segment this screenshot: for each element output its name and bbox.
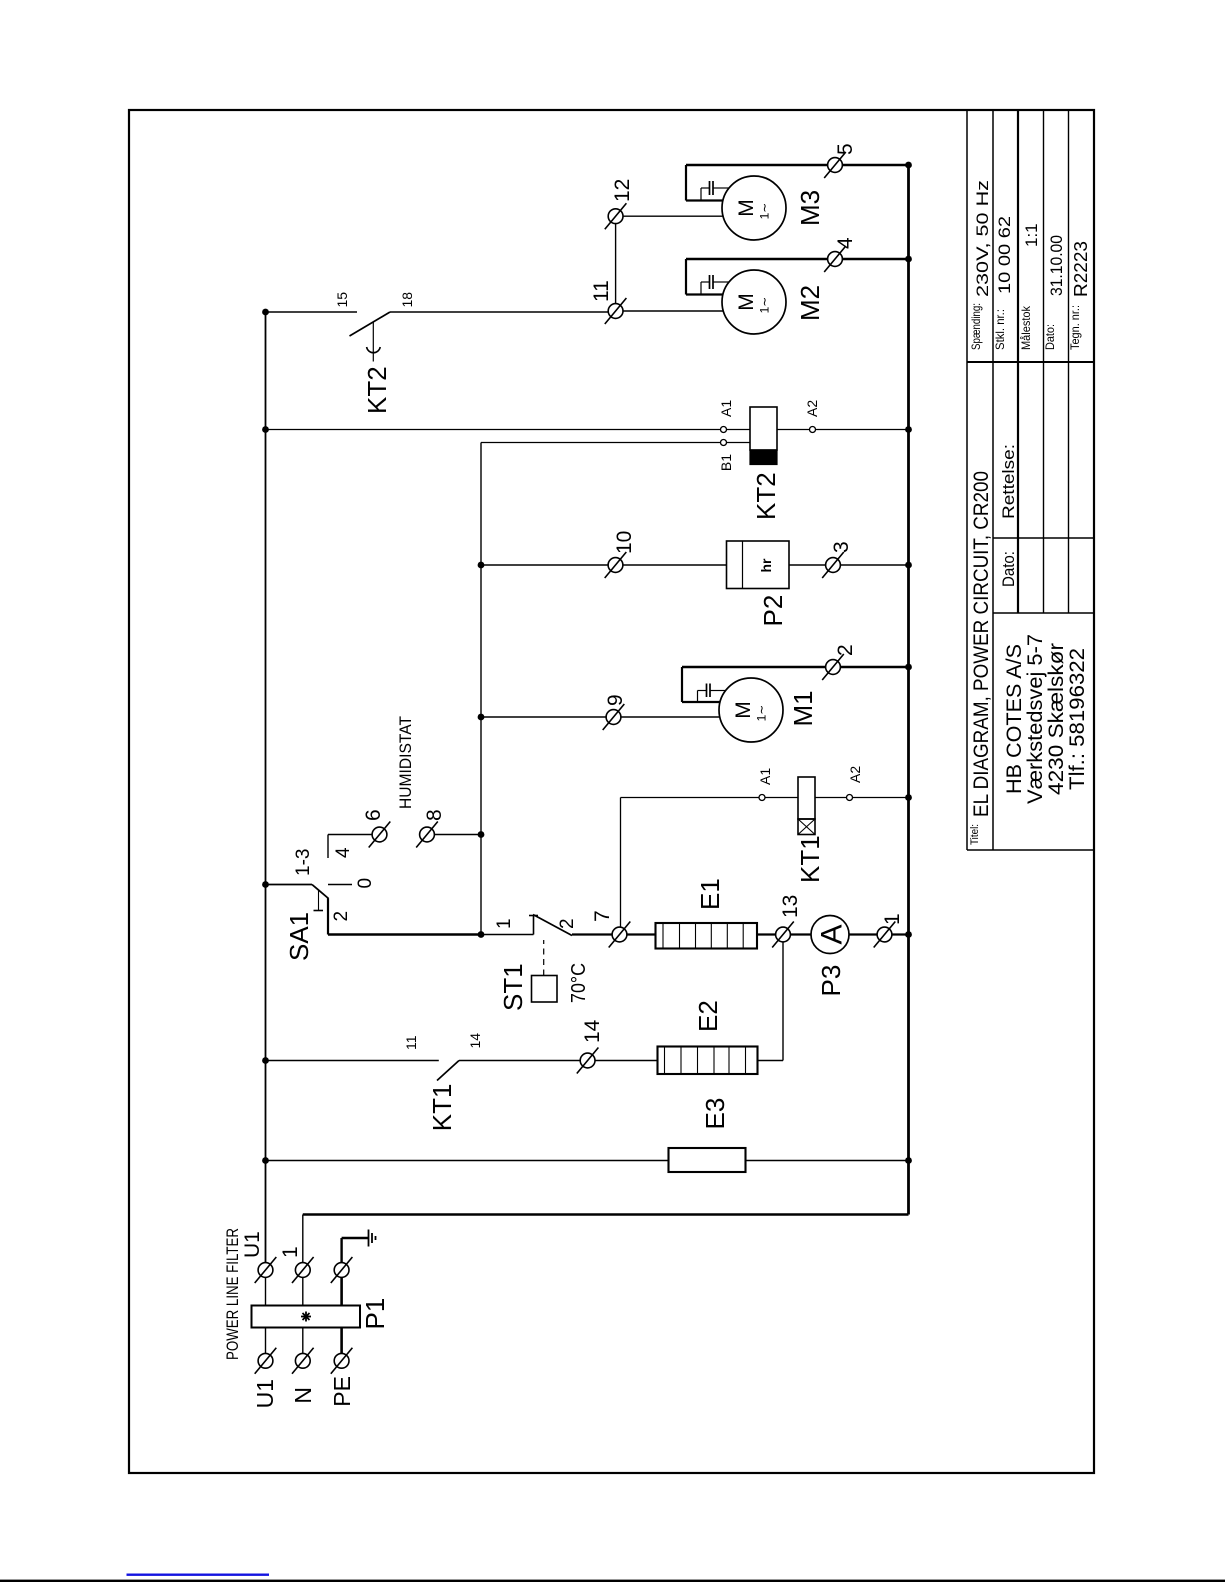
svg-text:A: A	[816, 924, 849, 944]
svg-text:Målestok: Målestok	[1019, 305, 1033, 350]
title block vertical divider between Dato and Rettelse columns	[993, 537, 1094, 539]
motor M2 circle	[722, 270, 786, 334]
capacitor riser of M3	[700, 188, 702, 201]
terminal 9	[606, 710, 621, 725]
hyperlink underline artifact bottom left	[127, 1574, 270, 1576]
svg-text:Rettelse:: Rettelse:	[999, 444, 1018, 519]
svg-text:E1: E1	[695, 878, 725, 910]
svg-text:70°C: 70°C	[568, 963, 590, 1003]
svg-text:KT2: KT2	[751, 472, 781, 520]
terminal 2	[826, 660, 841, 675]
capacitor M1 to motor stub	[710, 690, 726, 692]
svg-text:P1: P1	[360, 1298, 390, 1330]
svg-text:0: 0	[355, 878, 376, 889]
terminal 4	[828, 252, 843, 267]
wire P1 to U1 output terminal	[265, 1277, 267, 1305]
wire top supply bus	[265, 312, 267, 1262]
node P2 on bottom bus	[905, 562, 912, 569]
wire terminal 8 down to tap line	[434, 834, 481, 836]
capacitor plates of M2	[709, 275, 711, 289]
wire terminal 12 down to motor M3	[623, 215, 723, 217]
selector SA1 mechanical linkage	[318, 890, 320, 911]
terminal 10	[608, 558, 623, 573]
svg-text:A1: A1	[757, 768, 773, 785]
title block row line under Titel row	[992, 110, 994, 850]
relay coil KT1 box	[798, 777, 815, 819]
delay actuator line of KT2	[372, 322, 374, 362]
svg-text:1-3: 1-3	[293, 849, 314, 876]
title block main vertical divider	[967, 361, 1094, 363]
footer black bar	[0, 1580, 1225, 1582]
wire terminal 13 to ammeter P3	[790, 933, 811, 935]
wire terminal 9 to motor M1	[621, 716, 720, 718]
wire M2 feed down to terminal 4	[686, 258, 828, 261]
svg-text:6: 6	[362, 809, 385, 821]
svg-text:12: 12	[611, 179, 634, 202]
svg-text:4230 Skælskør: 4230 Skælskør	[1045, 643, 1068, 795]
svg-text:10 00 62: 10 00 62	[995, 216, 1014, 294]
terminal 12	[608, 209, 623, 224]
svg-text:3: 3	[830, 541, 853, 553]
node KT2 A1 on top bus	[262, 426, 269, 433]
svg-text:SA1: SA1	[284, 912, 314, 961]
wire top bus to KT2 A1	[266, 429, 721, 431]
svg-text:KT1: KT1	[795, 835, 825, 883]
svg-text:14: 14	[467, 1033, 483, 1049]
pin A1 of KT2	[721, 427, 727, 433]
delay semicircle of KT2	[367, 347, 381, 353]
svg-text:M: M	[732, 701, 755, 719]
pin A1 of KT1	[759, 795, 765, 801]
capacitor M3 to motor stub	[713, 187, 729, 189]
svg-text:2: 2	[834, 644, 857, 656]
svg-text:R2223: R2223	[1071, 241, 1091, 297]
wire P1 to terminal 1 output	[302, 1277, 304, 1305]
wire terminal 7 to KT1 coil corner	[620, 798, 622, 928]
heater E2	[658, 1047, 758, 1075]
terminal PE input (left)	[334, 1353, 349, 1368]
wire tap to terminal 9	[481, 716, 606, 718]
dashed actuator ST1 to arm	[543, 940, 545, 976]
svg-text:1:1: 1:1	[1022, 223, 1041, 247]
wire E1 to terminal 13	[757, 933, 776, 935]
motor M3 circle	[722, 176, 786, 240]
wire terminal 11 to terminal 12	[615, 224, 617, 304]
wire terminal 11 down to motor M2	[623, 310, 723, 312]
wire tap to terminal 10	[481, 564, 608, 566]
svg-text:M3: M3	[795, 190, 825, 226]
wire terminal 5 to bottom bus	[842, 164, 908, 167]
terminal 1 rung	[877, 927, 892, 942]
svg-text:2: 2	[557, 918, 578, 929]
wire A1 into KT2 coil	[727, 429, 751, 431]
wire SA1 position 2 horizontal	[327, 898, 329, 934]
wire bus to KT2 contact	[266, 311, 358, 313]
svg-text:HB COTES A/S: HB COTES A/S	[1003, 644, 1026, 794]
terminal 13	[776, 927, 791, 942]
wire SA1 input	[266, 884, 313, 886]
remanence square with X of KT1	[798, 819, 815, 835]
wire B1 into KT2 coil	[727, 442, 751, 444]
svg-text:1: 1	[494, 918, 515, 929]
svg-text:31.10.00: 31.10.00	[1047, 235, 1066, 296]
svg-text:EL DIAGRAM, POWER CIRCUIT, CR: EL DIAGRAM, POWER CIRCUIT, CR200	[970, 471, 993, 817]
selector SA1 position 4 stub	[327, 835, 329, 859]
svg-text:M: M	[735, 293, 758, 311]
node E2 rung on top bus	[262, 1057, 269, 1064]
wire junction to ST1 contact	[481, 934, 534, 936]
wire neutral riser from filter to bottom bus	[303, 1213, 909, 1216]
terminal 8	[420, 827, 435, 842]
selector switch SA1 moving arm	[312, 885, 329, 899]
heater E3	[669, 1148, 746, 1172]
terminal 5	[828, 158, 843, 173]
wire N input to P1	[302, 1328, 304, 1354]
terminal U1 output	[258, 1263, 273, 1278]
svg-text:PE: PE	[329, 1376, 355, 1407]
wire corner to terminal 13	[782, 942, 784, 1061]
node M3 on bottom bus	[905, 162, 912, 169]
contact KT1 (NO) moving arm	[437, 1061, 459, 1081]
drawing border frame	[129, 110, 1094, 1473]
svg-text:E2: E2	[693, 1000, 723, 1032]
title block row line under Malestok row	[1043, 110, 1045, 613]
node E3 rung on top bus	[262, 1157, 269, 1164]
pin A2 of KT1	[847, 795, 853, 801]
wire P1 to PE output	[340, 1277, 343, 1305]
wire M1 feed down to terminal 2	[682, 666, 826, 669]
svg-text:230V, 50 Hz: 230V, 50 Hz	[973, 180, 992, 297]
svg-text:Dato:: Dato:	[1043, 324, 1057, 350]
svg-text:Dato:: Dato:	[999, 551, 1018, 587]
terminal PE output	[334, 1263, 349, 1278]
svg-text:13: 13	[779, 895, 802, 918]
svg-text:B1: B1	[718, 454, 734, 471]
wire KT2 coil to A2	[777, 429, 809, 431]
svg-text:4: 4	[834, 237, 857, 249]
wire neutral horizontal from filter terminal 1	[302, 1215, 304, 1263]
contact ST1 thermal fixed T-bar	[533, 916, 535, 935]
selector SA1 position 0 stub	[328, 884, 352, 886]
heater E1	[656, 923, 758, 949]
title block row line under Dato row	[1068, 110, 1070, 613]
terminal 1 output	[295, 1263, 310, 1278]
svg-text:10: 10	[613, 531, 636, 554]
svg-text:ST1: ST1	[498, 963, 528, 1011]
wire M3 feed down to terminal 5	[686, 164, 828, 167]
title block vertical divider at revision table left	[993, 612, 1094, 614]
svg-text:1∼: 1∼	[758, 297, 772, 314]
bracket wire M1 output	[681, 667, 683, 702]
ammeter P3 circle	[811, 916, 849, 954]
bracket wire M3 output	[685, 165, 687, 201]
terminal U1 input (left)	[258, 1353, 273, 1368]
terminal 14	[580, 1053, 595, 1068]
node tap P2 rung	[478, 562, 485, 569]
wire terminal 2 to bottom bus	[840, 666, 908, 669]
wire P3 to terminal 1	[849, 933, 877, 935]
wire corner down to KT1 A1	[621, 797, 760, 799]
wire A2 to bottom bus	[853, 797, 909, 799]
contact KT2 (NO delayed) moving arm	[350, 312, 391, 336]
wire SA1 output down to junction	[328, 933, 481, 936]
svg-text:KT1: KT1	[427, 1084, 457, 1132]
thermostat ST1 box	[532, 976, 558, 1003]
wire PE input to P1	[340, 1328, 343, 1354]
svg-text:5: 5	[834, 143, 857, 155]
wire E2 rung from bus to KT1 contact	[266, 1060, 439, 1062]
node tap at ST1 rung	[478, 931, 485, 938]
relay coil KT2 box	[750, 407, 777, 450]
wire terminal 7 to heater E1	[627, 933, 656, 935]
svg-text:P3: P3	[816, 965, 846, 997]
capacitor C of M1 riser	[697, 691, 699, 703]
terminal N input (left)	[295, 1353, 310, 1368]
capacitor plates of M1	[706, 684, 708, 698]
svg-text:M: M	[735, 199, 758, 217]
svg-text:E3: E3	[700, 1098, 730, 1130]
svg-text:Tegn. nr.:: Tegn. nr.:	[1068, 305, 1082, 350]
hour counter P2 box	[727, 541, 790, 589]
wire KT2 contact to terminal 11	[390, 311, 608, 313]
motor M1 circle	[719, 678, 783, 742]
svg-text:14: 14	[581, 1019, 604, 1043]
svg-text:Tlf.: 58196322: Tlf.: 58196322	[1066, 648, 1089, 790]
svg-text:HUMIDISTAT: HUMIDISTAT	[397, 716, 415, 809]
svg-text:1∼: 1∼	[758, 203, 772, 220]
svg-text:4: 4	[333, 847, 354, 858]
capacitor M2 to motor stub	[713, 281, 729, 283]
wire terminal 3 to bottom bus	[840, 564, 908, 566]
wire E3 rung upper	[266, 1160, 669, 1162]
ground symbol	[368, 1230, 370, 1247]
svg-text:15: 15	[334, 292, 350, 308]
svg-text:11: 11	[403, 1035, 419, 1050]
node tap humidistat	[478, 831, 485, 838]
svg-text:N: N	[290, 1387, 316, 1404]
node tap M1 rung	[478, 714, 485, 721]
wire P2 to terminal 3	[789, 564, 826, 566]
svg-text:7: 7	[591, 910, 614, 922]
node power rung on bottom bus	[905, 931, 912, 938]
wire U1 input to P1	[265, 1328, 267, 1354]
svg-text:M2: M2	[795, 285, 825, 321]
svg-text:KT2: KT2	[362, 366, 392, 414]
node M2 on bottom bus	[905, 256, 912, 263]
node M1 on bottom bus	[905, 664, 912, 671]
svg-text:A2: A2	[847, 766, 863, 783]
svg-text:A1: A1	[718, 400, 734, 417]
pin B1 of KT2	[721, 440, 727, 446]
black time section of KT2 coil	[750, 450, 777, 465]
contact ST1 moving arm	[533, 915, 572, 936]
svg-text:M1: M1	[788, 690, 818, 726]
node KT2 A2 on bottom bus	[905, 426, 912, 433]
bracket wire M2 output	[685, 259, 687, 295]
svg-text:POWER LINE FILTER: POWER LINE FILTER	[223, 1228, 242, 1360]
svg-text:2: 2	[331, 911, 352, 922]
terminal 6	[372, 827, 387, 842]
svg-text:1∼: 1∼	[755, 705, 769, 722]
pin A2 of KT2	[810, 427, 816, 433]
title block row line under Stkl row (thick)	[1017, 110, 1019, 613]
wire KT1 coil to A2	[815, 797, 846, 799]
wire terminal 10 to P2	[623, 564, 727, 566]
asterisk symbol inside P1	[305, 1312, 307, 1322]
svg-text:A2: A2	[804, 400, 820, 417]
wire A1 to KT1 coil	[765, 797, 798, 799]
terminal 3	[826, 558, 841, 573]
svg-text:1: 1	[279, 1246, 302, 1258]
title block outline	[966, 110, 968, 850]
wire bottom return bus	[907, 165, 910, 1215]
svg-text:hr: hr	[758, 558, 774, 573]
node SA1 on top bus	[262, 881, 269, 888]
node KT1 A2 on bottom bus	[905, 794, 912, 801]
svg-text:18: 18	[399, 292, 415, 308]
wire B1 from tap line corner	[481, 442, 721, 444]
wire E2 to corner	[758, 1060, 784, 1062]
landscape schematic rotated 90deg CCW into portrait page	[129, 110, 1094, 1473]
svg-text:8: 8	[423, 809, 446, 821]
svg-text:Spænding:: Spænding:	[969, 303, 983, 350]
wire KT1 contact to terminal 14	[459, 1060, 580, 1062]
capacitor plates of M3	[709, 181, 711, 195]
wire position 4 riser to terminal 6	[328, 834, 372, 836]
wire KT2 A2 to bottom bus	[816, 429, 909, 431]
svg-text:U1: U1	[252, 1379, 278, 1408]
svg-text:11: 11	[590, 280, 613, 302]
wire E3 rung lower	[746, 1160, 909, 1162]
svg-text:Værkstedsvej 5-7: Værkstedsvej 5-7	[1024, 634, 1047, 804]
wire auxiliary tap line	[480, 443, 482, 935]
svg-text:U1: U1	[241, 1231, 264, 1258]
wire ST1 to terminal 7	[572, 933, 612, 935]
svg-text:9: 9	[604, 694, 627, 706]
capacitor riser of M2	[700, 282, 702, 295]
svg-text:P2: P2	[758, 595, 788, 627]
node E3 rung on bottom bus	[905, 1157, 912, 1164]
terminal 11	[608, 304, 623, 319]
svg-text:Stkl. nr.:: Stkl. nr.:	[993, 309, 1007, 350]
terminal 7	[612, 927, 627, 942]
svg-text:1: 1	[881, 913, 904, 925]
wire terminal 14 to heater E2	[595, 1060, 658, 1062]
node KT2 contact on top bus	[262, 309, 269, 316]
power line filter P1 box	[252, 1306, 361, 1328]
wire terminal 4 to bottom bus	[842, 258, 908, 261]
wire PE output to ground	[340, 1238, 342, 1262]
svg-text:Titel:: Titel:	[969, 824, 981, 845]
wire terminal 1 to bottom bus	[892, 933, 909, 935]
